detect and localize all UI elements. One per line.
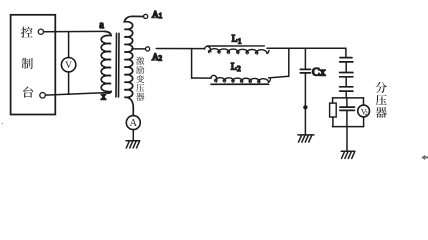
svg-text:2: 2: [237, 65, 241, 73]
divider capacitor C3: [340, 87, 353, 91]
label 控: [21, 27, 33, 38]
ground under divider: [341, 151, 355, 158]
divider stem 2: [345, 77, 347, 87]
svg-text:a: a: [99, 20, 104, 31]
svg-text:1: 1: [238, 37, 242, 45]
wire bottom console to transformer: [46, 93, 107, 96]
label 激: [136, 57, 144, 65]
wire top console to transformer: [44, 30, 105, 32]
label 台: [23, 87, 33, 98]
svg-text:L: L: [231, 62, 237, 72]
divider capacitor C2: [340, 73, 353, 77]
divider stem 1: [345, 62, 347, 72]
tap wire to A2: [132, 48, 146, 50]
label 器: [376, 107, 387, 118]
inductor L2 coil: [211, 75, 270, 82]
RC section top bar: [332, 97, 363, 99]
main wire A2 to divider corner: [156, 48, 205, 50]
divider capacitor C1: [340, 58, 353, 62]
label 器: [136, 93, 144, 101]
RC middle cap stem bottom: [346, 111, 348, 127]
inductor L1 coil: [205, 46, 269, 53]
label 压: [136, 84, 144, 92]
terminal A1: [144, 14, 148, 18]
capacitor Cx stem bottom: [304, 73, 306, 135]
svg-text:2: 2: [159, 55, 163, 63]
voltmeter V stem bottom: [68, 72, 70, 94]
label 分: [376, 82, 387, 93]
capacitor Cx plates: [300, 69, 310, 73]
meter V2 stem top: [363, 98, 365, 105]
svg-text:L: L: [232, 35, 238, 45]
L2 branch right lead: [269, 76, 289, 78]
faint scan speck left edge: [1, 123, 3, 125]
meter V2 stem bottom: [363, 117, 365, 127]
gray cursor arrow artifact: [421, 155, 428, 160]
svg-text:V: V: [65, 60, 72, 71]
transformer secondary winding: [124, 16, 143, 115]
ground under ammeter: [126, 141, 140, 148]
ground under Cx: [298, 135, 314, 142]
label 压: [376, 95, 387, 106]
label 励: [136, 66, 144, 74]
main wire L1 right segment: [267, 47, 346, 49]
RC middle capacitor plates: [340, 107, 355, 110]
resistor R: [330, 103, 337, 117]
label 制: [22, 58, 33, 69]
transformer primary winding: [101, 31, 111, 93]
L2 branch left lead: [192, 77, 212, 79]
svg-text:2: 2: [365, 110, 368, 117]
junction dot on Cx branch: [303, 105, 307, 109]
inductor L2 core bar: [211, 83, 269, 85]
terminal bottom on console: [40, 93, 46, 99]
meter V2 circle: [358, 105, 370, 117]
svg-text:x: x: [101, 92, 106, 103]
RC middle cap stem top: [346, 98, 348, 107]
voltmeter V stem top: [68, 32, 70, 57]
L2 branch left vertical: [191, 49, 193, 79]
ammeter stem to ground: [132, 130, 134, 141]
capacitor Cx stem top: [304, 48, 306, 69]
svg-text:Cx: Cx: [312, 65, 326, 78]
divider stem 3: [345, 91, 347, 98]
divider corner down: [345, 48, 347, 57]
RC section bottom bar: [332, 126, 363, 128]
resistor branch wire bottom: [332, 117, 334, 127]
terminal top on console: [38, 29, 43, 34]
voltmeter V circle: [61, 57, 75, 71]
L2 branch right vertical: [288, 48, 290, 76]
label 变: [136, 75, 144, 83]
control console box: [11, 15, 56, 115]
ammeter A circle: [126, 116, 140, 130]
divider ground stem: [346, 127, 348, 152]
terminal A2: [146, 47, 150, 51]
inductor L1 core bar: [207, 45, 264, 47]
svg-text:1: 1: [159, 12, 163, 20]
resistor branch wire top: [332, 98, 334, 103]
transformer core: [116, 33, 119, 97]
svg-text:A: A: [130, 118, 138, 129]
